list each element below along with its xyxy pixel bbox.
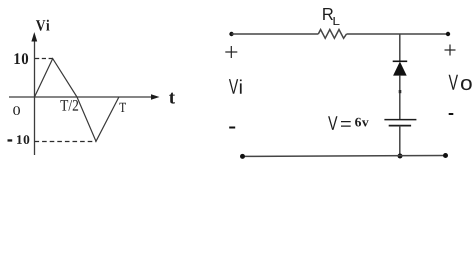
node: junction dot on bottom rail xyxy=(398,154,403,159)
label T/2 xyxy=(60,100,78,111)
t axis (horizontal axis of waveform graph) xyxy=(9,94,160,99)
battery label V xyxy=(328,116,337,130)
wire: top rail left of resistor xyxy=(232,33,319,35)
resistor RL (zigzag) xyxy=(318,30,346,39)
label RL (L subscript) xyxy=(334,17,340,25)
junction blemish on middle branch wire xyxy=(399,90,402,93)
wire: bottom rail xyxy=(243,155,446,158)
node: bottom-right terminal dot xyxy=(443,153,448,158)
label Vo output (V) xyxy=(449,75,458,90)
battery label 6v xyxy=(355,118,369,127)
polarity - at output xyxy=(449,113,454,115)
label -10 (digits) xyxy=(17,135,29,144)
wire: diode anode down to battery top plate xyxy=(399,76,401,119)
polarity + at output xyxy=(445,45,456,56)
Vi axis (vertical axis of waveform graph) xyxy=(31,32,37,155)
dashed level -10 xyxy=(35,141,96,143)
triangular waveform Vi(t) xyxy=(35,59,119,142)
node: bottom-left terminal dot xyxy=(240,154,245,159)
label -10 (minus) xyxy=(8,139,13,141)
dashed level +10 xyxy=(35,58,53,60)
label Vo output (o) xyxy=(461,79,472,90)
label 10 xyxy=(15,53,29,64)
polarity - at input xyxy=(229,127,235,129)
diode D1 anode triangle (pointing up) xyxy=(393,62,407,76)
label Vi input (i) xyxy=(240,80,242,94)
label Vi (graph axis label) xyxy=(36,20,50,31)
wire: middle branch from top rail to diode cathode xyxy=(399,34,401,61)
label RL (R) xyxy=(323,8,333,20)
label Vi input (V) xyxy=(229,79,238,94)
diode D1 cathode bar xyxy=(393,60,408,62)
label t (time axis label) xyxy=(169,93,175,104)
polarity + at input xyxy=(225,46,237,58)
node: top-right terminal dot xyxy=(446,32,450,36)
label 0 (origin) xyxy=(13,106,20,115)
wire: top rail right of resistor xyxy=(347,33,449,35)
battery V long positive plate xyxy=(384,119,416,121)
node: top-left terminal dot xyxy=(229,32,233,36)
battery label = xyxy=(341,121,351,127)
battery V short negative plate xyxy=(389,125,411,127)
wire: battery bottom plate down to bottom rail xyxy=(399,126,401,156)
label T xyxy=(119,103,126,112)
